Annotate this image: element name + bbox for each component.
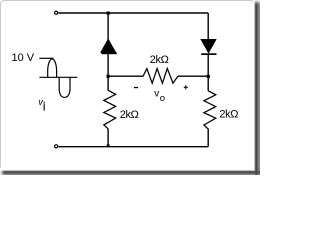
bottom wire	[58, 146, 208, 148]
resistor R3 horizontal 2k	[143, 69, 178, 84]
svg-text:10 V: 10 V	[12, 52, 35, 64]
left vertical wire upper	[107, 13, 109, 41]
svg-text:2kΩ: 2kΩ	[150, 54, 169, 66]
label plus for vo	[184, 85, 188, 89]
svg-text:v: v	[38, 97, 43, 107]
sine positive half	[48, 59, 57, 78]
svg-text:v: v	[154, 89, 159, 100]
source axis	[39, 76, 77, 78]
sine negative half	[59, 77, 70, 97]
middle wire right segment	[178, 75, 208, 77]
label vi subscript stem	[44, 103, 45, 110]
frame shadow right band top fade	[253, 0, 260, 6]
frame shadow bottom band	[6, 168, 260, 175]
image frame: white page with light top/left border	[1, 1, 253, 168]
terminal top-left	[55, 11, 58, 14]
left vertical wire mid	[107, 54, 109, 91]
left vertical wire lower	[107, 129, 109, 147]
node dot bottom	[107, 144, 110, 146]
node dot middle-left	[107, 75, 110, 78]
diode D1 (left, triangle up, bar below)	[101, 39, 116, 52]
frame shadow right band	[253, 6, 260, 175]
svg-text:o: o	[160, 93, 165, 104]
top wire	[58, 12, 208, 14]
right vertical wire upper	[207, 13, 209, 40]
terminal bottom-left	[55, 145, 58, 148]
label minus for vo	[134, 87, 138, 88]
resistor R1 vertical left 2k	[104, 90, 116, 129]
source peak dash	[39, 57, 53, 59]
frame shadow bottom band left fade	[0, 168, 6, 175]
middle wire left segment	[108, 75, 143, 77]
diode D2 (right, triangle down, bar below)	[201, 39, 216, 52]
node dot middle-right	[207, 75, 210, 78]
svg-text:2kΩ: 2kΩ	[219, 108, 238, 120]
svg-text:2kΩ: 2kΩ	[120, 109, 139, 121]
node dot top	[107, 12, 110, 15]
right vertical wire mid	[207, 54, 209, 90]
label vi subscript dot	[44, 102, 45, 103]
right vertical wire lower	[207, 129, 209, 147]
resistor R2 vertical right 2k	[204, 91, 216, 129]
